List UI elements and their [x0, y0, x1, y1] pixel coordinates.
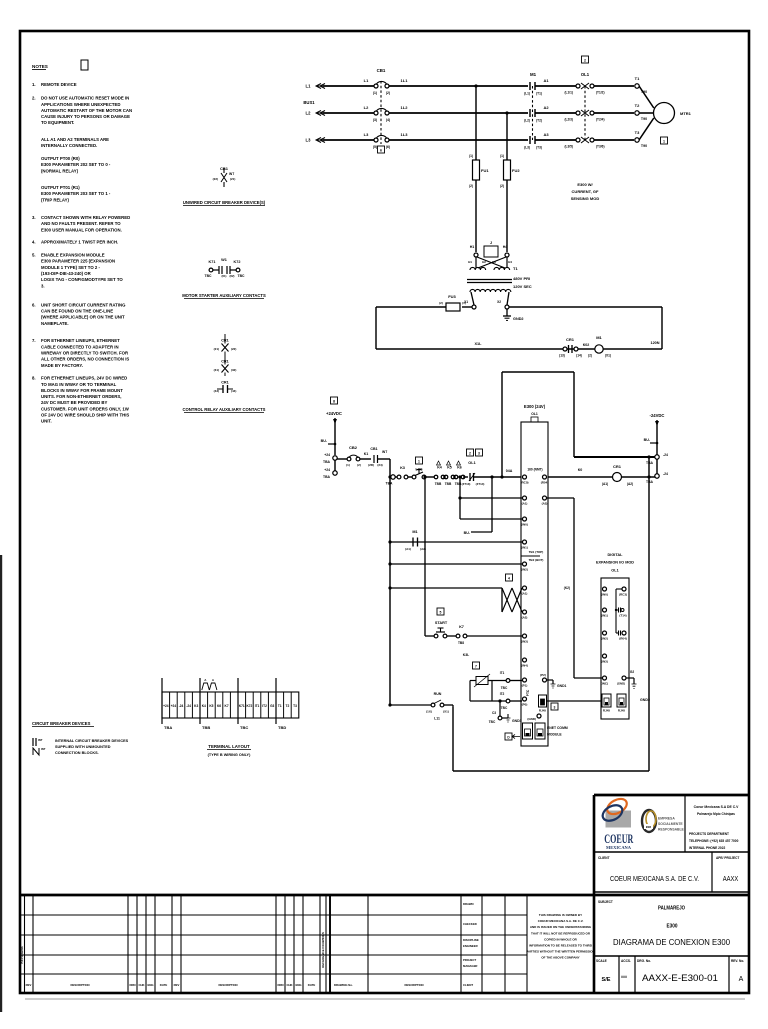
svg-text:AAXX-E-E300-01: AAXX-E-E300-01: [642, 973, 718, 983]
svg-text:(A1): (A1): [522, 592, 528, 596]
svg-text:INT: INT: [382, 450, 387, 454]
svg-text:-24: -24: [186, 704, 191, 708]
svg-text:CUSTOMER. FOR UNIT ORDERS ONL: CUSTOMER. FOR UNIT ORDERS ONLY, 1W: [41, 406, 130, 411]
svg-text:K6: K6: [217, 704, 221, 708]
svg-text:L2: L2: [306, 111, 312, 116]
svg-text:(IN1): (IN1): [601, 614, 608, 618]
svg-text:OL1: OL1: [531, 412, 538, 416]
svg-text:OUTPUT PT00 (R0): OUTPUT PT00 (R0): [41, 156, 80, 161]
svg-text:T2: T2: [286, 704, 290, 708]
svg-text:(T3): (T3): [536, 146, 542, 150]
svg-text:1: 1: [418, 460, 420, 464]
svg-text:H4: H4: [508, 260, 512, 264]
svg-text:TB8: TB8: [458, 641, 464, 645]
svg-text:(3): (3): [373, 118, 377, 122]
svg-text:(L3): (L3): [524, 146, 530, 150]
svg-text:(L1): (L1): [524, 92, 530, 96]
svg-text:(21): (21): [214, 347, 219, 351]
svg-text:ENG: ENG: [147, 983, 153, 987]
svg-text:CURRENT, GF: CURRENT, GF: [572, 189, 599, 194]
svg-text:5: 5: [440, 611, 442, 615]
svg-text:CIRCUIT BREAKER DEVICES: CIRCUIT BREAKER DEVICES: [32, 721, 91, 726]
svg-text:(P0): (P0): [522, 703, 528, 707]
svg-text:T1: T1: [635, 76, 640, 81]
svg-text:FU2: FU2: [512, 168, 520, 173]
svg-text:GND3: GND3: [512, 719, 522, 723]
svg-text:PARTIES WITHOUT THE WRITTEN PE: PARTIES WITHOUT THE WRITTEN PERMISSION: [526, 950, 595, 954]
svg-text:M1: M1: [412, 530, 417, 534]
svg-text:4: 4: [508, 577, 510, 581]
svg-text:DRAWN: DRAWN: [463, 902, 474, 906]
svg-text:REMOTE DEVICE: REMOTE DEVICE: [41, 82, 77, 87]
svg-text:-24: -24: [663, 453, 668, 457]
svg-text:(T2): (T2): [536, 119, 542, 123]
svg-text:LOS: LOS: [416, 468, 424, 472]
svg-text:TBA: TBA: [386, 482, 394, 486]
svg-text:T3: T3: [635, 130, 640, 135]
svg-text:BU-: BU-: [321, 439, 328, 443]
svg-text:(2): (2): [439, 301, 443, 305]
svg-text:(RC0): (RC0): [521, 481, 529, 485]
svg-text:DESCRIPTION: DESCRIPTION: [70, 983, 89, 987]
svg-text:REVISIONS: REVISIONS: [20, 946, 24, 963]
svg-text:FU3: FU3: [448, 294, 456, 299]
svg-text:CLIENT: CLIENT: [598, 856, 610, 860]
svg-text:7: 7: [475, 665, 477, 669]
svg-text:IT1: IT1: [255, 704, 260, 708]
svg-text:(IN0): (IN0): [521, 523, 528, 527]
svg-text:W1: W1: [221, 258, 227, 262]
svg-text:E300 PARAMETER 225 (EXPANSION: E300 PARAMETER 225 (EXPANSION: [41, 259, 115, 264]
svg-text:(L3/5): (L3/5): [564, 145, 573, 149]
svg-text:CABLE CONNECTED TO ADAPTER IN: CABLE CONNECTED TO ADAPTER IN: [41, 344, 119, 349]
svg-text:+24: +24: [163, 704, 169, 708]
svg-text:(WHERE APPLICABLE) OR ON THE U: (WHERE APPLICABLE) OR ON THE UNIT: [41, 315, 125, 320]
svg-text:H4: H4: [503, 245, 508, 249]
svg-text:(2R): (2R): [368, 463, 374, 467]
svg-text:RJ45: RJ45: [603, 709, 611, 713]
svg-text:04A: 04A: [506, 469, 513, 473]
svg-text:OL1: OL1: [611, 569, 618, 573]
svg-text:(T2/4): (T2/4): [596, 118, 605, 122]
svg-text:(NORMAL RELAY): (NORMAL RELAY): [41, 168, 79, 173]
svg-text:(2): (2): [500, 184, 504, 188]
svg-text:T90: T90: [641, 144, 647, 148]
svg-text:H2: H2: [482, 260, 486, 264]
svg-text:A2: A2: [543, 105, 549, 110]
svg-text:(13): (13): [559, 354, 565, 358]
svg-text:GND1: GND1: [557, 684, 567, 688]
svg-text:OL1: OL1: [468, 461, 475, 465]
svg-text:PALMAREJO: PALMAREJO: [658, 906, 685, 912]
svg-text:TBB: TBB: [445, 482, 452, 486]
svg-text:(A1): (A1): [602, 482, 608, 486]
svg-text:(2): (2): [357, 463, 361, 467]
svg-text:2: 2: [469, 452, 471, 456]
svg-text:DATE: DATE: [160, 983, 168, 987]
svg-text:THIS DRAWING IS OWNED BY: THIS DRAWING IS OWNED BY: [539, 913, 582, 917]
svg-text:SCALE: SCALE: [596, 959, 607, 963]
svg-text:DRAWING No.: DRAWING No.: [334, 983, 353, 987]
svg-text:(TYPE B WIRING ONLY): (TYPE B WIRING ONLY): [208, 753, 251, 757]
svg-text:(IN1): (IN1): [521, 546, 528, 550]
svg-text:X1L: X1L: [475, 342, 483, 346]
svg-text:(32): (32): [231, 368, 236, 372]
svg-text:REV: REV: [26, 983, 32, 987]
svg-text:IT2: IT2: [262, 704, 267, 708]
svg-text:(A2): (A2): [522, 616, 528, 620]
svg-text:L1: L1: [306, 84, 312, 89]
svg-text:J: J: [490, 240, 492, 245]
svg-text:TBC: TBC: [501, 686, 508, 690]
svg-text:(A2): (A2): [542, 502, 548, 506]
svg-text:SOCIALMENTE: SOCIALMENTE: [658, 822, 683, 826]
svg-text:NOTES: NOTES: [32, 64, 48, 69]
svg-text:(6): (6): [386, 145, 390, 149]
svg-text:24V DC MUST BE PROVIDED BY: 24V DC MUST BE PROVIDED BY: [41, 400, 108, 405]
svg-text:DATE: DATE: [308, 983, 316, 987]
svg-text:ENET COMM: ENET COMM: [547, 726, 568, 730]
svg-text:7.: 7.: [32, 338, 36, 343]
svg-text:CHK: CHK: [286, 983, 292, 987]
svg-text:(14): (14): [576, 354, 582, 358]
svg-text:(P2): (P2): [540, 673, 546, 677]
svg-text:TBD: TBD: [278, 725, 286, 730]
svg-text:OF THE ABOVE COMPANY: OF THE ABOVE COMPANY: [541, 956, 579, 960]
svg-text:8.: 8.: [32, 376, 36, 381]
svg-text:3.: 3.: [41, 283, 45, 288]
svg-text:TBB: TBB: [435, 482, 442, 486]
svg-text:A1: A1: [543, 78, 549, 83]
svg-text:ALL OTHER ORDERS, NO CONNECTIO: ALL OTHER ORDERS, NO CONNECTION IS: [41, 357, 129, 362]
svg-text:C3: C3: [492, 711, 496, 715]
svg-text:H1: H1: [468, 260, 472, 264]
svg-text:+24: +24: [324, 453, 330, 457]
svg-text:(K2): (K2): [564, 586, 570, 590]
svg-text:MADE BY FACTORY.: MADE BY FACTORY.: [41, 363, 83, 368]
svg-text:FOR ETHERNET LINEUPS, 24V DC W: FOR ETHERNET LINEUPS, 24V DC WIRED: [41, 376, 127, 381]
svg-text:(A1): (A1): [405, 547, 411, 551]
svg-text:COEUR: COEUR: [604, 832, 634, 846]
svg-text:120N: 120N: [650, 341, 659, 345]
svg-text:1: 1: [663, 140, 665, 144]
svg-text:(R04): (R04): [619, 637, 627, 641]
svg-text:PTC: PTC: [526, 689, 530, 696]
svg-text:COEUR MEXICANA S.A. DE C.V.: COEUR MEXICANA S.A. DE C.V.: [610, 874, 699, 883]
svg-text:CHECKED: CHECKED: [463, 922, 477, 926]
svg-text:E300 PARAMETER 202 SET TO 0 -: E300 PARAMETER 202 SET TO 0 -: [41, 162, 111, 167]
svg-text:160 (NMT): 160 (NMT): [527, 468, 542, 472]
svg-text:(T14): (T14): [619, 614, 626, 618]
svg-text:UNIT.: UNIT.: [41, 419, 52, 424]
svg-text:(193-DIP-DIE-43-240) OR: (193-DIP-DIE-43-240) OR: [41, 271, 92, 276]
svg-text:ENGINEER: ENGINEER: [463, 944, 478, 948]
svg-text:RJ45: RJ45: [539, 709, 547, 713]
svg-text:+24: +24: [171, 704, 177, 708]
svg-text:K72: K72: [246, 704, 252, 708]
svg-text:(22): (22): [213, 177, 218, 181]
svg-text:TBA: TBA: [323, 475, 331, 479]
svg-text:K3: K3: [194, 704, 198, 708]
svg-text:MODULE: MODULE: [547, 733, 562, 737]
svg-text:(1X): (1X): [426, 710, 432, 714]
svg-text:(1): (1): [469, 154, 473, 158]
svg-text:MOTOR STARTER AUXILIARY CONTAC: MOTOR STARTER AUXILIARY CONTACTS: [182, 293, 266, 298]
svg-text:IT2: IT2: [500, 692, 505, 696]
svg-text:AND IS ISSUED ON THE UNDERSTAN: AND IS ISSUED ON THE UNDERSTANDING: [530, 925, 592, 929]
svg-text:T90: T90: [641, 117, 647, 121]
svg-text:E300: E300: [667, 924, 678, 930]
svg-text:CONNECTION BLOCKS.: CONNECTION BLOCKS.: [55, 751, 99, 755]
svg-text:(2): (2): [588, 354, 592, 358]
svg-text:REFERENCE DRAWINGS: REFERENCE DRAWINGS: [321, 932, 325, 968]
svg-text:H1: H1: [470, 245, 475, 249]
svg-text:(43): (43): [214, 389, 219, 393]
svg-text:TERMINAL LAYOUT: TERMINAL LAYOUT: [208, 744, 250, 749]
svg-text:BLOCKS IN WWAY FOR FRAME MOUNT: BLOCKS IN WWAY FOR FRAME MOUNT: [41, 388, 123, 393]
svg-text:AAXX: AAXX: [723, 874, 739, 883]
svg-text:CR1: CR1: [566, 337, 575, 342]
svg-text:E300 USER MANUAL FOR OPERATION: E300 USER MANUAL FOR OPERATION.: [41, 227, 122, 232]
svg-text:+24: +24: [324, 468, 330, 472]
svg-text:LOGIX TAG - CONFIGMODTYPE SET: LOGIX TAG - CONFIGMODTYPE SET TO: [41, 277, 123, 282]
svg-text:2: 2: [584, 59, 586, 63]
svg-text:E300 PARAMETER 203 SET TO 1 -: E300 PARAMETER 203 SET TO 1 -: [41, 191, 111, 196]
svg-text:TO EQUIPMENT.: TO EQUIPMENT.: [41, 120, 74, 125]
svg-text:S/E: S/E: [601, 977, 610, 983]
svg-text:(IN2): (IN2): [601, 637, 608, 641]
svg-text:1.: 1.: [32, 82, 36, 87]
svg-text:CB1: CB1: [370, 447, 377, 451]
svg-text:NAMEPLATE.: NAMEPLATE.: [41, 321, 69, 326]
svg-text:A3: A3: [543, 132, 549, 137]
svg-text:G2: G2: [630, 670, 634, 674]
svg-text:PROJECTS DEPARTMENT: PROJECTS DEPARTMENT: [689, 832, 729, 836]
svg-text:2.: 2.: [32, 96, 36, 101]
svg-text:TBA: TBA: [323, 460, 331, 464]
svg-text:(21): (21): [230, 177, 235, 181]
svg-text:(2): (2): [386, 91, 390, 95]
svg-text:DESCRIPTION: DESCRIPTION: [404, 983, 423, 987]
svg-text:INTERNAL PHONE 2022: INTERNAL PHONE 2022: [689, 846, 725, 850]
svg-text:(1): (1): [346, 463, 350, 467]
svg-text:T1: T1: [278, 704, 282, 708]
svg-text:COEUR MEXICANA S.A. DE C.V.: COEUR MEXICANA S.A. DE C.V.: [538, 919, 584, 923]
svg-text:(GND): (GND): [527, 717, 536, 721]
svg-text:SUPPLIED WITH UNMOUNTED: SUPPLIED WITH UNMOUNTED: [55, 745, 111, 749]
svg-text:K71: K71: [239, 704, 245, 708]
svg-text:BUS1: BUS1: [303, 100, 315, 105]
svg-text:DRN: DRN: [129, 983, 135, 987]
svg-text:4.: 4.: [32, 240, 36, 245]
svg-text:UNWIRED CIRCUIT BREAKER DEVICE: UNWIRED CIRCUIT BREAKER DEVICE(S): [183, 200, 266, 205]
svg-text:CB2: CB2: [349, 445, 358, 450]
svg-text:RESPONSABLE: RESPONSABLE: [658, 828, 685, 832]
svg-text:(X1): (X1): [605, 354, 611, 358]
svg-text:1L2: 1L2: [401, 105, 409, 110]
svg-text:(1): (1): [462, 301, 466, 305]
svg-text:OUTPUT PT01 (R1): OUTPUT PT01 (R1): [41, 185, 80, 190]
svg-text:FOR ETHERNET LINEUPS, ETHERNET: FOR ETHERNET LINEUPS, ETHERNET: [41, 338, 120, 343]
svg-text:MANAGER: MANAGER: [463, 964, 477, 968]
svg-text:M1: M1: [530, 72, 537, 77]
svg-text:(T3/6): (T3/6): [596, 145, 605, 149]
svg-text:H3: H3: [492, 260, 496, 264]
svg-text:(5): (5): [373, 145, 377, 149]
svg-text:###: ###: [621, 975, 627, 979]
svg-text:(TRIP RELAY): (TRIP RELAY): [41, 197, 70, 202]
svg-text:(61): (61): [222, 274, 227, 278]
svg-text:(1): (1): [373, 91, 377, 95]
svg-text:K0: K0: [578, 468, 583, 472]
svg-text:AUTOMATIC RESTART OF THE MOTOR: AUTOMATIC RESTART OF THE MOTOR CAN: [41, 108, 132, 113]
svg-text:(62): (62): [230, 274, 235, 278]
svg-text:EMPRESA: EMPRESA: [658, 817, 675, 821]
svg-text:TBC: TBC: [240, 725, 248, 730]
svg-text:K3: K3: [400, 466, 405, 470]
svg-text:T1: T1: [513, 266, 518, 271]
svg-text:K72: K72: [234, 260, 241, 264]
svg-text:K7: K7: [225, 704, 229, 708]
svg-text:(4T14): (4T14): [476, 482, 485, 486]
svg-text:(IN0): (IN0): [601, 593, 608, 597]
svg-text:PROJECT: PROJECT: [463, 958, 477, 962]
svg-text:8: 8: [333, 400, 335, 404]
svg-text:ALL A1 AND A2 TERMINALS ARE: ALL A1 AND A2 TERMINALS ARE: [41, 137, 109, 142]
svg-text:OL1: OL1: [581, 72, 590, 77]
svg-text:IT1: IT1: [500, 671, 505, 675]
svg-text:DESCRIPTION: DESCRIPTION: [218, 983, 237, 987]
svg-text:(L2): (L2): [524, 119, 530, 123]
svg-text:DISCIPLINE: DISCIPLINE: [463, 938, 479, 942]
svg-text:INT: INT: [229, 172, 234, 176]
svg-text:(4): (4): [386, 118, 390, 122]
svg-text:EXPANSION I/O MOD: EXPANSION I/O MOD: [596, 561, 634, 565]
svg-text:INT: INT: [38, 738, 43, 742]
svg-text:K5: K5: [209, 704, 213, 708]
svg-text:K1: K1: [364, 452, 369, 456]
svg-text:CB1: CB1: [377, 68, 386, 73]
svg-text:(A2): (A2): [420, 547, 426, 551]
svg-text:DO NOT USE AUTOMATIC RESET MOD: DO NOT USE AUTOMATIC RESET MODE IN: [41, 96, 129, 101]
svg-text:K4: K4: [202, 704, 206, 708]
svg-text:TO MAG IN WWAY OR TO TERMINAL: TO MAG IN WWAY OR TO TERMINAL: [41, 382, 117, 387]
svg-text:FU1: FU1: [481, 168, 489, 173]
svg-text:INT: INT: [41, 747, 46, 751]
svg-text:(INC): (INC): [601, 682, 608, 686]
svg-text:(1): (1): [500, 154, 504, 158]
svg-text:UNITS. FOR NON-ETHERNET ORDER: UNITS. FOR NON-ETHERNET ORDERS,: [41, 394, 121, 399]
svg-text:(R04): (R04): [541, 481, 549, 485]
svg-text:K6: K6: [457, 466, 462, 470]
svg-text:REV: REV: [174, 983, 180, 987]
svg-text:-24: -24: [179, 704, 184, 708]
svg-text:CAN BE FOUND ON THE ONE-LINE: CAN BE FOUND ON THE ONE-LINE: [41, 308, 113, 313]
svg-text:ESR: ESR: [646, 825, 651, 829]
svg-text:AND NO FAULTS PRESENT. REFER: AND NO FAULTS PRESENT. REFER TO: [41, 221, 121, 226]
svg-text:480V PRI: 480V PRI: [513, 276, 530, 281]
svg-text:120V SEC: 120V SEC: [513, 284, 532, 289]
svg-text:-24VDC: -24VDC: [650, 413, 665, 418]
svg-text:DIGITAL: DIGITAL: [608, 553, 624, 557]
svg-text:(L1/1): (L1/1): [564, 91, 573, 95]
svg-text:TBC: TBC: [501, 706, 508, 710]
svg-text:THAT IT WILL NOT BE REPRODUCED: THAT IT WILL NOT BE REPRODUCED OR: [531, 931, 591, 935]
svg-text:-24: -24: [663, 472, 668, 476]
svg-text:(L2/3): (L2/3): [564, 118, 573, 122]
svg-text:(44): (44): [231, 389, 236, 393]
svg-text:(24): (24): [377, 463, 382, 467]
svg-text:(IN3): (IN3): [521, 640, 528, 644]
svg-text:Palmarejo Mpio Chinipas: Palmarejo Mpio Chinipas: [697, 812, 735, 816]
svg-text:3: 3: [554, 706, 556, 710]
svg-text:RJ45: RJ45: [618, 709, 626, 713]
svg-text:(IN3): (IN3): [601, 660, 608, 664]
svg-text:APPLICATIONS WHERE UNEXPECTED: APPLICATIONS WHERE UNEXPECTED: [41, 102, 120, 107]
svg-text:BU-: BU-: [464, 531, 471, 535]
svg-text:G3: G3: [270, 704, 274, 708]
svg-text:MTR1: MTR1: [680, 111, 692, 116]
svg-text:6: 6: [380, 149, 382, 153]
svg-text:APPROXIMATELY 1 TWIST PER INCH: APPROXIMATELY 1 TWIST PER INCH.: [41, 240, 118, 245]
svg-text:K3L: K3L: [463, 653, 469, 657]
svg-text:L11: L11: [434, 717, 440, 721]
svg-text:ENG: ENG: [295, 983, 301, 987]
svg-text:(31): (31): [214, 368, 219, 372]
svg-text:L1: L1: [364, 78, 369, 83]
svg-text:TB2 (BOT): TB2 (BOT): [529, 558, 544, 562]
svg-text:(T1): (T1): [536, 92, 542, 96]
svg-text:COPIED IN WHOLE OR: COPIED IN WHOLE OR: [544, 937, 578, 941]
svg-text:5.: 5.: [32, 253, 36, 258]
svg-text:K4: K4: [437, 466, 442, 470]
svg-text:(T1/2): (T1/2): [596, 91, 605, 95]
svg-text:+24VDC: +24VDC: [326, 411, 342, 416]
svg-text:(RC3): (RC3): [619, 593, 627, 597]
svg-text:E300 (24V): E300 (24V): [524, 404, 546, 409]
svg-text:T2: T2: [635, 103, 640, 108]
svg-text:(IN4): (IN4): [521, 664, 528, 668]
svg-text:CONTROL RELAY AUXILIARY CONTAC: CONTROL RELAY AUXILIARY CONTACTS: [183, 407, 266, 412]
svg-text:TBC: TBC: [205, 274, 213, 278]
svg-text:(2): (2): [469, 184, 473, 188]
svg-text:BU-: BU-: [644, 438, 651, 442]
svg-text:(X1): (X1): [443, 710, 449, 714]
svg-text:E300 W/: E300 W/: [577, 182, 593, 187]
svg-text:L2: L2: [364, 105, 369, 110]
svg-text:K02: K02: [583, 343, 590, 347]
svg-text:TB1 (TOP): TB1 (TOP): [529, 550, 544, 554]
svg-text:L3: L3: [364, 132, 369, 137]
svg-text:REV. No.: REV. No.: [731, 959, 744, 963]
svg-text:(A2): (A2): [627, 482, 633, 486]
svg-text:WIREWAY OR DIRECTLY TO SWITCH.: WIREWAY OR DIRECTLY TO SWITCH. FOR: [41, 351, 129, 356]
svg-text:(22): (22): [231, 347, 236, 351]
svg-text:START: START: [435, 621, 448, 625]
svg-text:(GND): (GND): [617, 682, 625, 686]
svg-text:TBB: TBB: [202, 725, 210, 730]
svg-text:MEXICANA: MEXICANA: [606, 845, 632, 850]
svg-text:ENABLE EXPANSION MODULE: ENABLE EXPANSION MODULE: [41, 253, 105, 258]
svg-text:CR1: CR1: [613, 464, 622, 469]
svg-text:INTERNAL CIRCUIT BREAKER DEVIC: INTERNAL CIRCUIT BREAKER DEVICES: [55, 739, 129, 743]
svg-text:MODULE 1 TYPE) SET TO 2 -: MODULE 1 TYPE) SET TO 2 -: [41, 265, 100, 270]
svg-text:X2: X2: [497, 300, 501, 304]
svg-text:TELEPHONE: (+52) 635 457 7000: TELEPHONE: (+52) 635 457 7000: [689, 839, 739, 843]
svg-text:6.: 6.: [32, 302, 36, 307]
svg-text:TBA: TBA: [646, 480, 654, 484]
svg-text:TBC: TBC: [489, 720, 496, 724]
